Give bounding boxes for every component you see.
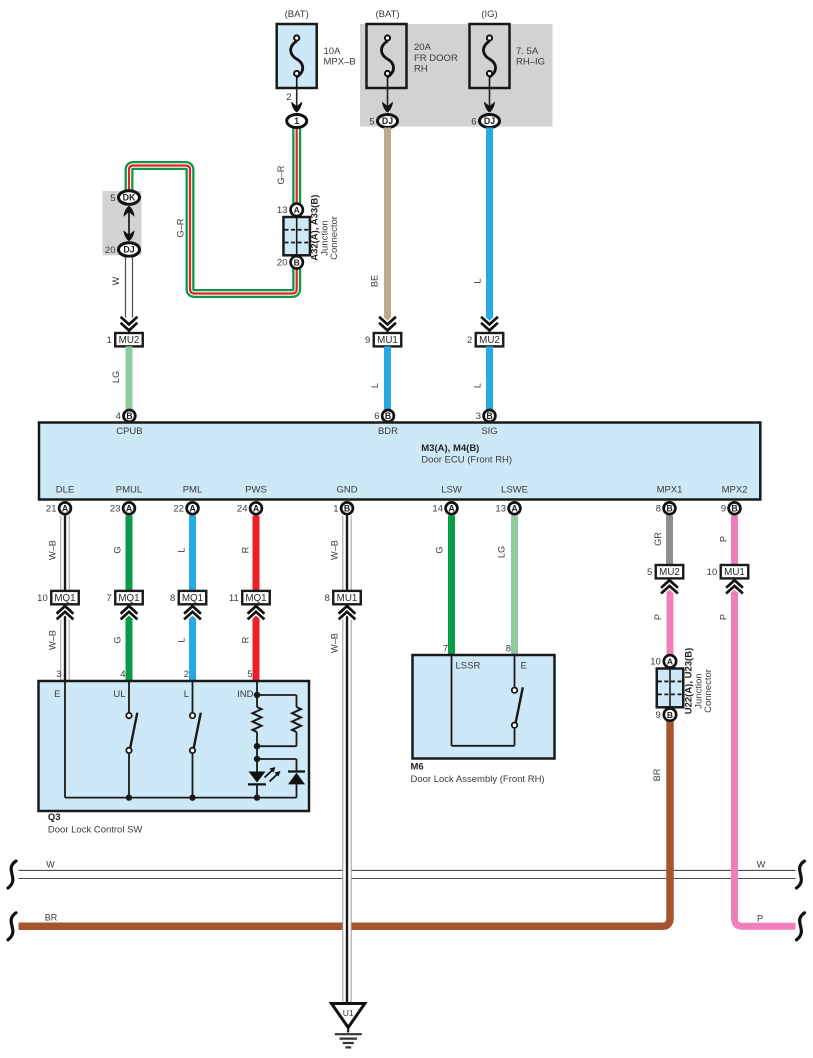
wire W horizontal (ground bus) [19,869,796,871]
ECU pin MPX1 circle B (8) [664,502,676,514]
svg-text:LG: LG [111,371,121,383]
svg-text:G: G [435,546,445,553]
svg-text:7: 7 [106,593,111,604]
svg-text:MQ1: MQ1 [182,593,203,604]
svg-text:G–R: G–R [276,165,286,184]
svg-text:21: 21 [46,504,57,515]
wire L to BDR [384,346,391,409]
diode branch wire [257,758,297,760]
svg-text:8: 8 [506,644,511,655]
svg-text:M6: M6 [411,762,424,773]
svg-text:2: 2 [286,92,291,103]
svg-text:(BAT): (BAT) [285,9,309,20]
svg-text:L: L [184,689,189,700]
svg-text:L: L [177,547,187,552]
svg-text:MU2: MU2 [119,335,140,346]
switch UL [128,681,130,713]
junction connector A32(A), A33(B) [283,217,310,255]
svg-text:MPX1: MPX1 [657,484,683,495]
node resistor join [254,743,260,749]
diode D2 [288,770,305,772]
inline connector 11 MQ1 [249,606,264,613]
svg-text:A: A [62,504,69,514]
svg-text:DLE: DLE [56,484,74,495]
svg-text:W–B: W–B [48,540,58,560]
ECU pin LSW circle A (14) [446,502,458,514]
wire L to SIG [486,346,493,409]
svg-text:4: 4 [116,411,121,422]
svg-text:RH: RH [414,63,428,74]
svg-text:MPX2: MPX2 [722,484,748,495]
ECU pin PMUL circle A (23) [123,502,135,514]
svg-text:A: A [126,504,133,514]
svg-text:10A: 10A [324,46,342,57]
svg-text:RH–IG: RH–IG [516,57,545,68]
svg-text:A: A [294,205,300,215]
svg-text:5: 5 [369,116,374,127]
svg-text:R: R [241,636,251,643]
svg-text:5: 5 [247,669,252,680]
svg-text:9: 9 [365,335,370,346]
svg-text:3: 3 [476,411,481,422]
svg-text:Door ECU (Front RH): Door ECU (Front RH) [421,455,512,466]
wire G-R fuse 1 to junction connector A [292,128,301,204]
svg-text:1: 1 [333,504,338,515]
svg-text:10: 10 [650,657,661,668]
svg-text:A: A [667,657,673,667]
switch assembly M6 Door Lock Assembly (Front RH) [413,655,555,759]
svg-text:1: 1 [294,116,299,126]
svg-text:MU1: MU1 [724,567,745,578]
inline connector 9 MU1 [380,318,395,325]
wire L MQ1 to Q3 pin 2 [189,613,196,681]
pin 10 circle A of U22 junction connector [664,655,676,667]
svg-text:MU2: MU2 [659,567,680,578]
resistor R2 branch [257,694,297,696]
svg-text:24: 24 [237,504,248,515]
svg-text:B: B [667,710,673,720]
svg-text:PML: PML [183,484,203,495]
panel: DK/DJ connector background [103,191,142,255]
svg-text:U1: U1 [343,1008,354,1018]
pin 20 circle B of junction connector [291,256,303,268]
svg-text:P: P [757,914,763,924]
fuse 7.5A RH-IG [470,24,510,88]
wire R PWS to MQ1 [253,516,260,591]
Q3 internal wire E to rail [64,681,66,798]
M6 internal wire LSSR [451,655,453,746]
wire G MQ1 to Q3 pin 4 [126,613,133,681]
ECU pin PWS circle A (24) [250,502,262,514]
connector oval DJ (6) [480,115,500,128]
fuse 10A MPX-B [277,24,317,88]
pin 13 circle A of junction connector [291,204,303,216]
wire LG LSWE to M6 pin 8 [511,516,518,656]
ECU pin GND circle B (1) [341,502,353,514]
inline connector 5 MU2 [662,580,677,587]
svg-text:L: L [473,278,483,283]
svg-text:GND: GND [336,484,357,495]
svg-text:IND: IND [237,689,254,700]
svg-text:B: B [731,504,737,514]
svg-text:LSWE: LSWE [501,484,528,495]
svg-text:MU1: MU1 [337,593,358,604]
wire P MU1 to bottom right bus [735,587,796,926]
svg-text:1: 1 [106,335,111,346]
svg-text:W: W [111,276,121,285]
ECU pin CPUB circle B (4) [123,410,135,422]
svg-text:MU1: MU1 [377,335,398,346]
svg-text:B: B [385,411,391,421]
svg-text:G: G [113,636,123,643]
wire L PML to MQ1 [189,516,196,591]
svg-text:B: B [486,411,492,421]
svg-text:7: 7 [443,644,448,655]
switch assembly Q3 Door Lock Control SW [39,681,310,811]
svg-text:2: 2 [184,669,189,680]
svg-text:L: L [473,383,483,388]
inline connector 2 MU2 [482,318,497,325]
svg-text:A: A [448,504,455,514]
ECU pin MPX2 circle B (9) [729,502,741,514]
svg-text:MPX–B: MPX–B [324,57,356,68]
wire G-R junction connector B to DK [129,166,297,294]
svg-text:R: R [241,546,251,553]
svg-text:BDR: BDR [378,426,398,437]
svg-text:Connector: Connector [329,216,340,260]
svg-text:6: 6 [374,411,379,422]
svg-text:Door Lock Control SW: Door Lock Control SW [48,825,143,836]
svg-text:2: 2 [467,335,472,346]
inline connector 7 MQ1 [122,606,137,613]
svg-text:(IG): (IG) [481,9,497,20]
wire W-B GND to ground U1 (lower segment, over bus) [343,855,351,1003]
svg-text:E: E [54,689,60,700]
svg-text:A: A [511,504,518,514]
wire W from DJ to MU2 [126,258,133,323]
pin 5 arrow of fuse 2 [387,88,389,108]
break symbol P right [797,913,805,940]
node IND top [254,692,260,698]
ECU pin BDR circle B (6) [382,410,394,422]
svg-text:8: 8 [170,593,175,604]
svg-text:B: B [344,504,350,514]
M6 switch [514,655,516,688]
break symbol W left [8,861,16,888]
svg-text:P: P [719,536,729,542]
svg-text:LSW: LSW [441,484,462,495]
wire P MPX2 to MU1 [731,516,738,565]
svg-text:Connector: Connector [703,669,714,713]
svg-text:DJ: DJ [123,245,134,255]
wire P MU2 to junction connector A [667,587,674,655]
pin 2 arrow of fuse 1 [296,88,298,108]
svg-text:20: 20 [105,245,116,256]
ECU pin SIG circle B (3) [484,410,496,422]
svg-text:20: 20 [277,258,288,269]
connector DK (5) / DJ (20) with mating arrows [119,191,140,205]
svg-text:P: P [719,614,729,620]
svg-text:GR: GR [653,532,663,546]
LED D1 [249,772,266,783]
svg-text:Q3: Q3 [48,812,61,823]
svg-text:W–B: W–B [330,633,340,653]
svg-text:G: G [113,546,123,553]
svg-text:13: 13 [277,205,288,216]
svg-text:FR DOOR: FR DOOR [414,53,458,64]
svg-text:W–B: W–B [330,540,340,560]
ground U1 triangle [332,1004,365,1028]
svg-text:DJ: DJ [382,116,393,126]
svg-text:5: 5 [647,567,652,578]
inline connector 1 MU2 [122,318,137,325]
svg-text:20A: 20A [414,42,432,53]
wire LG to CPUB [126,346,133,409]
inline connector 8 MQ1 [185,606,200,613]
switch L [192,681,194,713]
wire GR MPX1 to MU2 [666,516,673,565]
svg-text:13: 13 [495,504,506,515]
svg-text:P: P [653,614,663,620]
svg-text:W: W [757,860,766,870]
wire G PMUL to MQ1 [126,516,133,591]
svg-text:(BAT): (BAT) [375,9,399,20]
svg-text:DK: DK [123,193,136,203]
svg-text:BE: BE [370,275,380,287]
svg-text:Door Lock Assembly (Front RH): Door Lock Assembly (Front RH) [411,774,545,785]
svg-text:23: 23 [110,504,121,515]
fuse 20A FR DOOR RH [367,24,407,88]
svg-text:10: 10 [707,567,718,578]
svg-text:L: L [177,637,187,642]
svg-text:MQ1: MQ1 [245,593,266,604]
wire G LSW to M6 pin 7 [448,516,455,656]
ground hatching [347,1028,349,1033]
svg-text:4: 4 [120,669,125,680]
node LED split [254,756,260,762]
svg-text:22: 22 [173,504,184,515]
svg-text:SIG: SIG [481,426,497,437]
svg-text:3: 3 [56,669,61,680]
svg-text:MQ1: MQ1 [54,593,75,604]
svg-text:PMUL: PMUL [116,484,142,495]
svg-text:7. 5A: 7. 5A [516,46,539,57]
svg-text:B: B [126,411,132,421]
IND branch with resistors [256,681,258,707]
inline connector 10 MQ1 [58,606,73,613]
svg-text:A: A [189,504,196,514]
svg-text:B: B [666,504,672,514]
svg-text:W–B: W–B [48,630,58,650]
wire W-B DLE to MQ1 [61,516,69,591]
svg-text:MU2: MU2 [479,335,500,346]
node rail IND [254,794,260,800]
svg-text:LG: LG [497,546,507,558]
svg-text:B: B [294,258,300,268]
svg-text:8: 8 [324,593,329,604]
svg-text:10: 10 [37,593,48,604]
Q3 bottom rail [65,797,297,799]
wire BE from DJ(5) to MU1 [384,128,391,323]
ECU M3(A), M4(B) Door ECU (Front RH) [39,423,760,500]
svg-text:MQ1: MQ1 [118,593,139,604]
inline connector 8 MU1 [340,606,355,613]
svg-text:PWS: PWS [245,484,267,495]
panel: junction block background (top) [360,24,553,127]
svg-text:W: W [46,860,55,870]
break symbol BR left [8,913,16,940]
svg-text:LSSR: LSSR [456,661,481,672]
svg-text:DJ: DJ [484,116,495,126]
wire BR junction connector B to lower bus [19,721,671,926]
ECU pin PML circle A (22) [187,502,199,514]
ECU pin DLE circle A (21) [59,502,71,514]
svg-text:A: A [253,504,260,514]
svg-text:CPUB: CPUB [116,426,142,437]
svg-text:G–R: G–R [176,218,186,237]
svg-text:BR: BR [45,912,58,922]
inline connector 10 MU1 [727,580,742,587]
connector oval 1 [287,115,307,128]
wire W-B GND below MU1 (upper segment) [343,613,351,855]
pin 9 circle B of U22 junction connector [664,708,676,720]
svg-text:5: 5 [110,193,115,204]
svg-text:6: 6 [471,116,476,127]
junction connector U22(A), U23(B) [657,669,684,708]
svg-text:9: 9 [656,710,661,721]
connector oval DJ (5) [378,115,398,128]
svg-text:11: 11 [229,593,239,604]
svg-text:E: E [521,661,527,672]
svg-text:9: 9 [721,504,726,515]
break symbol W right [797,861,805,888]
wire W-B MQ1 to Q3 pin 3 [61,613,69,681]
svg-text:BR: BR [652,768,662,781]
wire R MQ1 to Q3 pin 5 [253,613,260,681]
ECU pin LSWE circle A (13) [509,502,521,514]
svg-text:L: L [370,383,380,388]
wire L from DJ(6) to MU2 [486,128,493,323]
svg-text:8: 8 [656,504,661,515]
LED arrows [265,770,273,778]
svg-text:UL: UL [113,689,125,700]
pin 6 arrow of fuse 3 [489,88,491,108]
svg-text:14: 14 [432,504,443,515]
wire W-B GND to MU1 [343,516,351,591]
svg-text:M3(A), M4(B): M3(A), M4(B) [421,443,479,454]
